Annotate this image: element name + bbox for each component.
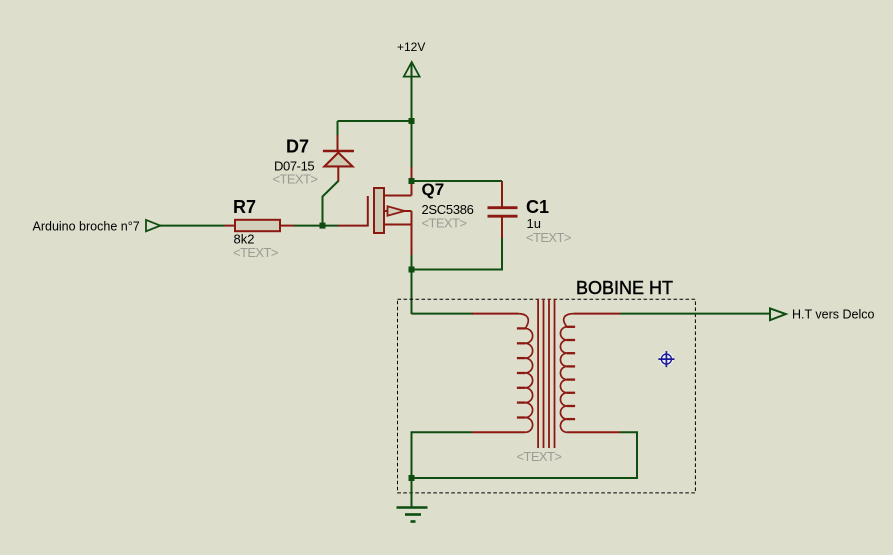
svg-text:Q7: Q7 — [422, 180, 445, 199]
ground — [397, 508, 428, 522]
wire rail down — [411, 121, 413, 168]
terminal input Arduino — [33, 220, 161, 234]
svg-text:C1: C1 — [526, 197, 549, 217]
svg-text:<TEXT>: <TEXT> — [422, 216, 467, 231]
resistor R7 — [225, 197, 295, 260]
wire primary top — [412, 313, 474, 315]
capacitor C1 — [488, 181, 571, 245]
svg-text:Arduino broche n°7: Arduino broche n°7 — [33, 220, 140, 234]
svg-text:H.T vers Delco: H.T vers Delco — [792, 308, 874, 322]
terminal output H.T — [770, 308, 874, 322]
wire secondary out — [620, 313, 769, 315]
wire R7 to gate node — [294, 225, 338, 227]
wire diode to gate node — [323, 181, 339, 226]
node gate — [320, 223, 326, 229]
wire C1 bottom — [412, 238, 503, 270]
node collector — [409, 178, 415, 184]
transformer primary — [472, 314, 533, 433]
svg-text:R7: R7 — [233, 197, 256, 217]
svg-text:D7: D7 — [286, 137, 309, 157]
svg-text:<TEXT>: <TEXT> — [517, 449, 562, 464]
wire input to R7 — [160, 225, 225, 227]
svg-text:1u: 1u — [527, 216, 541, 231]
origin marker — [658, 351, 674, 367]
svg-text:<TEXT>: <TEXT> — [233, 245, 278, 260]
wire secondary bottom return — [412, 432, 638, 478]
power +12V — [397, 40, 425, 121]
transistor Q7 — [368, 167, 474, 256]
wire top rail to diode — [338, 120, 412, 122]
wire node to gate pin — [338, 225, 368, 227]
wire diode top — [337, 121, 339, 136]
svg-text:<TEXT>: <TEXT> — [273, 172, 318, 187]
transformer secondary — [560, 314, 620, 433]
node top rail — [409, 118, 415, 124]
svg-text:+12V: +12V — [397, 40, 425, 54]
wire primary bottom return — [412, 432, 473, 478]
wire to ground — [411, 478, 413, 507]
node ground return — [409, 475, 415, 481]
transformer box — [398, 299, 696, 493]
wire collector node to C1 — [412, 180, 503, 182]
transformer core — [538, 299, 554, 448]
wire emitter down — [411, 255, 413, 314]
diode D7 — [273, 135, 355, 187]
svg-text:BOBINE HT: BOBINE HT — [576, 278, 673, 298]
node emitter — [409, 267, 415, 273]
svg-text:<TEXT>: <TEXT> — [526, 230, 571, 245]
